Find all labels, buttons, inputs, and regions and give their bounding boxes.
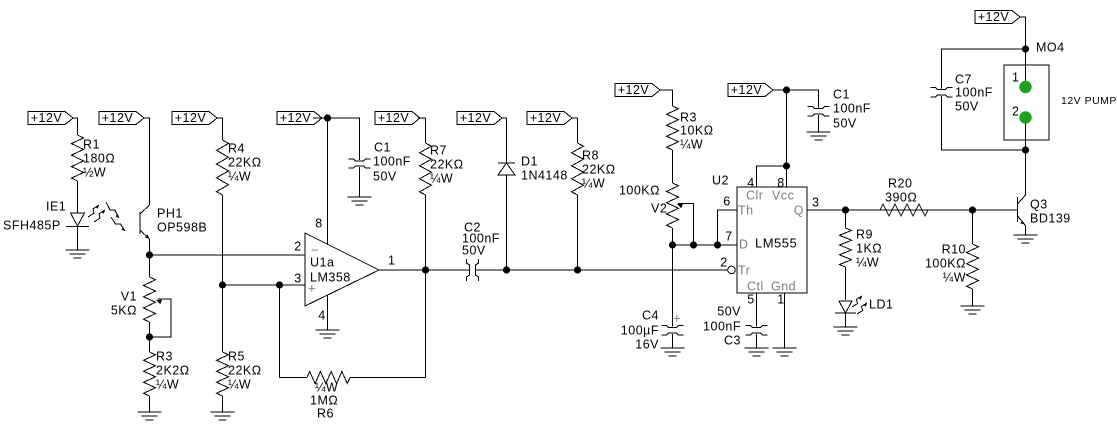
svg-text:R10: R10: [942, 242, 966, 256]
svg-text:100KΩ: 100KΩ: [619, 183, 660, 197]
svg-text:D: D: [739, 237, 749, 251]
svg-text:50V: 50V: [462, 243, 486, 257]
svg-text:100nF: 100nF: [703, 319, 741, 333]
svg-text:1MΩ: 1MΩ: [310, 393, 338, 407]
svg-text:C3: C3: [724, 333, 741, 347]
svg-text:3: 3: [812, 195, 819, 209]
svg-text:50V: 50V: [833, 116, 857, 130]
svg-text:100KΩ: 100KΩ: [925, 256, 966, 270]
svg-text:C4: C4: [642, 308, 659, 322]
svg-text:16V: 16V: [635, 337, 659, 351]
svg-text:50V: 50V: [373, 169, 397, 183]
svg-text:1: 1: [388, 253, 395, 267]
svg-text:22KΩ: 22KΩ: [582, 162, 616, 176]
svg-text:Clr: Clr: [746, 188, 763, 202]
svg-text:R6: R6: [317, 406, 334, 420]
svg-text:R7: R7: [430, 143, 447, 157]
svg-text:R4: R4: [228, 141, 245, 155]
svg-text:C7: C7: [955, 72, 972, 86]
svg-text:¼W: ¼W: [430, 171, 453, 185]
svg-text:10KΩ: 10KΩ: [680, 123, 714, 137]
svg-text:C1: C1: [833, 87, 850, 101]
svg-text:50V: 50V: [955, 99, 979, 113]
svg-text:¼W: ¼W: [156, 377, 179, 391]
svg-text:U1a: U1a: [310, 255, 334, 269]
svg-text:Th: Th: [738, 203, 754, 217]
svg-text:1KΩ: 1KΩ: [856, 241, 882, 255]
svg-text:¼W: ¼W: [856, 255, 879, 269]
svg-text:2: 2: [294, 239, 301, 253]
svg-text:IE1: IE1: [46, 199, 66, 213]
svg-text:¼W: ¼W: [943, 270, 966, 284]
svg-text:PH1: PH1: [157, 206, 183, 220]
svg-text:Ctl: Ctl: [747, 279, 764, 293]
svg-text:2: 2: [1012, 104, 1019, 118]
svg-text:2: 2: [720, 255, 727, 269]
svg-text:+12V: +12V: [978, 10, 1010, 24]
svg-text:Tr: Tr: [738, 263, 750, 277]
svg-text:R5: R5: [228, 349, 245, 363]
svg-text:SFH485P: SFH485P: [3, 218, 61, 232]
svg-text:4: 4: [318, 308, 325, 322]
svg-text:1: 1: [777, 292, 784, 306]
svg-text:¼W: ¼W: [228, 377, 251, 391]
svg-text:3: 3: [294, 271, 301, 285]
svg-text:Gnd: Gnd: [771, 279, 796, 293]
svg-text:2K2Ω: 2K2Ω: [156, 363, 190, 377]
svg-text:OP598B: OP598B: [157, 220, 207, 234]
svg-text:+12V: +12V: [731, 83, 763, 97]
svg-text:8: 8: [315, 216, 322, 230]
svg-text:R3: R3: [680, 110, 697, 124]
svg-text:V2: V2: [651, 201, 667, 215]
svg-text:R1: R1: [83, 137, 100, 151]
svg-text:100µF: 100µF: [621, 323, 659, 337]
svg-text:¼W: ¼W: [582, 176, 605, 190]
svg-text:22KΩ: 22KΩ: [430, 157, 464, 171]
svg-text:6: 6: [723, 194, 730, 208]
svg-text:Q3: Q3: [1030, 197, 1048, 211]
svg-text:+12V: +12V: [175, 111, 207, 125]
svg-text:7: 7: [725, 229, 732, 243]
svg-text:R8: R8: [582, 148, 599, 162]
svg-text:+12V: +12V: [618, 83, 650, 97]
svg-text:22KΩ: 22KΩ: [228, 155, 262, 169]
svg-text:+12V: +12V: [31, 111, 63, 125]
svg-text:+12V: +12V: [280, 111, 312, 125]
svg-text:D1: D1: [521, 154, 538, 168]
svg-text:390Ω: 390Ω: [885, 190, 917, 204]
svg-text:V1: V1: [121, 289, 137, 303]
svg-text:U2: U2: [712, 173, 729, 187]
svg-text:1N4148: 1N4148: [521, 168, 568, 182]
svg-text:+12V: +12V: [378, 111, 410, 125]
svg-text:Q: Q: [794, 203, 804, 217]
svg-text:MO4: MO4: [1036, 40, 1065, 54]
svg-text:5KΩ: 5KΩ: [111, 303, 137, 317]
svg-text:LM358: LM358: [310, 270, 351, 284]
svg-text:BD139: BD139: [1030, 211, 1071, 225]
svg-text:¼W: ¼W: [680, 137, 703, 151]
svg-text:+12V: +12V: [460, 111, 492, 125]
svg-text:C1: C1: [374, 140, 391, 154]
svg-text:R20: R20: [888, 176, 912, 190]
svg-text:+: +: [673, 310, 681, 325]
svg-text:12V PUMP: 12V PUMP: [1061, 95, 1117, 107]
svg-text:R3: R3: [156, 349, 173, 363]
svg-text:5: 5: [747, 292, 754, 306]
svg-text:¼W: ¼W: [315, 380, 338, 394]
svg-text:+12V: +12V: [102, 111, 134, 125]
svg-text:LD1: LD1: [869, 297, 893, 311]
svg-text:100nF: 100nF: [833, 101, 871, 115]
svg-text:180Ω: 180Ω: [83, 151, 115, 165]
svg-text:22KΩ: 22KΩ: [228, 363, 262, 377]
svg-text:100nF: 100nF: [955, 85, 993, 99]
svg-text:1: 1: [1012, 70, 1019, 84]
svg-text:¼W: ¼W: [228, 169, 251, 183]
svg-text:Vcc: Vcc: [772, 188, 794, 202]
svg-text:50V: 50V: [717, 304, 741, 318]
svg-text:+12V: +12V: [530, 111, 562, 125]
svg-text:R9: R9: [856, 227, 873, 241]
svg-text:LM555: LM555: [755, 235, 797, 250]
svg-text:100nF: 100nF: [373, 154, 411, 168]
svg-text:½W: ½W: [83, 165, 106, 179]
